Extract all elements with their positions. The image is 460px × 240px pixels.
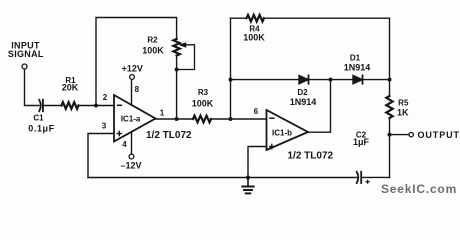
wire top to R4	[231, 17, 247, 19]
wire diode row left	[231, 79, 300, 81]
wire IC1-b output up to diode node	[308, 80, 331, 133]
wire C2 to right corner	[361, 176, 389, 178]
svg-text:1μF: 1μF	[353, 137, 370, 147]
junction node A	[94, 104, 98, 108]
wire C1 to R1	[43, 105, 62, 107]
svg-text:100K: 100K	[192, 98, 214, 108]
junction node B wiper bottom	[175, 68, 179, 72]
svg-text:2: 2	[103, 93, 108, 102]
wire R2 bottom to output node	[176, 56, 178, 120]
svg-text:+12V: +12V	[122, 64, 143, 74]
junction node G diodes mid	[329, 78, 333, 82]
svg-text:6: 6	[254, 107, 259, 116]
svg-text:1/2 TL072: 1/2 TL072	[146, 130, 192, 141]
wiper arrowhead	[179, 42, 187, 48]
wire pin 4	[131, 132, 133, 154]
svg-text:R5: R5	[398, 98, 409, 107]
svg-text:SeekIC.com: SeekIC.com	[381, 182, 457, 196]
junction node D pin6	[229, 117, 233, 121]
svg-text:3: 3	[102, 122, 107, 131]
wire pin 5	[248, 147, 267, 178]
potentiometer R2	[173, 39, 179, 56]
svg-text:1: 1	[160, 109, 165, 118]
capacitor C1	[39, 100, 43, 111]
resistor R5	[386, 96, 392, 118]
wire output stub	[390, 134, 409, 136]
junction node H output	[388, 133, 392, 137]
+12V terminal	[130, 75, 135, 80]
diode D1	[353, 75, 363, 83]
svg-text:1N914: 1N914	[290, 97, 317, 107]
capacitor C2	[357, 172, 362, 183]
svg-text:IC1-a: IC1-a	[121, 115, 141, 124]
svg-text:–12V: –12V	[120, 160, 141, 170]
op-amp IC1-a	[114, 95, 156, 142]
wire feedback 2 vertical	[230, 18, 232, 119]
svg-text:D1: D1	[350, 53, 361, 62]
svg-text:4: 4	[122, 140, 127, 149]
svg-text:100K: 100K	[142, 45, 164, 55]
svg-text:1N914: 1N914	[344, 63, 371, 73]
wire output node down	[389, 135, 391, 178]
resistor R4	[247, 15, 265, 22]
-12V terminal	[129, 154, 134, 159]
junction node C output IC1-a	[175, 117, 179, 121]
svg-text:1/2 TL072: 1/2 TL072	[288, 151, 334, 162]
input terminal	[22, 64, 27, 69]
output terminal	[409, 132, 413, 136]
diode D2	[299, 75, 309, 83]
wire R5 to output node	[389, 118, 391, 135]
junction node E diode branch	[229, 78, 233, 82]
wire bottom rail	[88, 177, 357, 179]
wire D1 to node F	[363, 79, 390, 81]
op-amp IC1-b minus sign	[269, 117, 274, 119]
svg-text:SIGNAL: SIGNAL	[8, 49, 44, 59]
wire R1 to pin 2	[79, 105, 115, 107]
svg-text:0.1μF: 0.1μF	[28, 124, 55, 134]
wire pin 3	[88, 134, 114, 178]
svg-text:D2: D2	[297, 88, 308, 97]
wire feedback up from node A	[96, 18, 177, 106]
junction node I ground	[246, 176, 250, 180]
svg-text:R3: R3	[198, 88, 209, 97]
svg-text:IC1-b: IC1-b	[272, 129, 292, 138]
svg-text:100K: 100K	[243, 32, 265, 42]
svg-text:R2: R2	[147, 35, 158, 44]
resistor R1	[62, 102, 79, 109]
wire pin 8	[131, 80, 133, 104]
svg-text:20K: 20K	[62, 83, 79, 93]
C2 plus sign	[366, 180, 370, 184]
wire R4 to right column	[264, 18, 390, 96]
junction node F right	[388, 78, 392, 82]
svg-text:C1: C1	[33, 114, 44, 123]
svg-text:OUTPUT: OUTPUT	[418, 130, 460, 140]
svg-text:1K: 1K	[397, 107, 409, 117]
resistor R3	[193, 116, 211, 123]
op-amp IC1-b	[267, 110, 309, 150]
wire input vertical	[25, 69, 40, 105]
wire D2 to node G	[309, 79, 354, 81]
wire R3 to pin 6	[211, 118, 267, 120]
ground	[242, 178, 253, 194]
op-amp IC1-a minus sign	[117, 104, 122, 106]
svg-text:8: 8	[135, 85, 140, 94]
op-amp IC1-b plus sign	[269, 144, 275, 150]
wiper of R2	[177, 45, 195, 70]
wire IC1-a output	[156, 118, 194, 120]
op-amp IC1-a plus sign	[117, 131, 123, 137]
